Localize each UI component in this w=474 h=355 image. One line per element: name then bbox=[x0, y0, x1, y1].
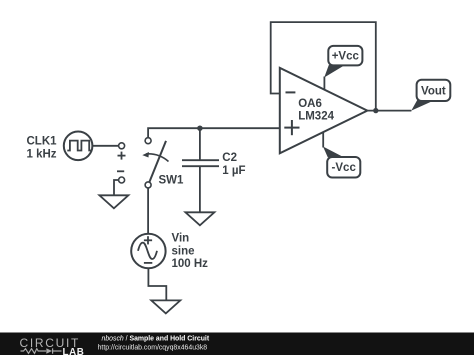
svg-text:100 Hz: 100 Hz bbox=[172, 258, 209, 270]
svg-text:http://circuitlab.com/cqyq8x46: http://circuitlab.com/cqyq8x464u3k8 bbox=[98, 344, 208, 351]
svg-text:Vin: Vin bbox=[172, 233, 190, 245]
svg-text:C2: C2 bbox=[222, 152, 237, 164]
svg-text:OA6: OA6 bbox=[298, 98, 322, 110]
svg-text:Vout: Vout bbox=[421, 85, 446, 97]
svg-text:LM324: LM324 bbox=[298, 111, 334, 123]
svg-text:SW1: SW1 bbox=[159, 175, 185, 187]
svg-text:LAB: LAB bbox=[63, 347, 85, 355]
svg-text:nbosch / Sample and Hold Circu: nbosch / Sample and Hold Circuit bbox=[102, 335, 210, 342]
svg-text:CLK1: CLK1 bbox=[27, 136, 58, 148]
svg-text:+Vcc: +Vcc bbox=[332, 51, 360, 63]
svg-text:1 µF: 1 µF bbox=[222, 165, 245, 177]
svg-text:1 kHz: 1 kHz bbox=[27, 148, 57, 160]
svg-text:sine: sine bbox=[172, 245, 195, 257]
svg-text:-Vcc: -Vcc bbox=[332, 162, 357, 174]
